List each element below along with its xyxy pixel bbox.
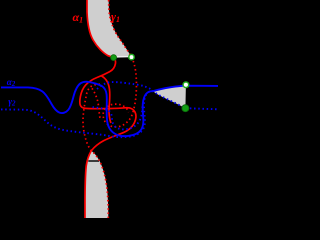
gamma2 blue dotted: inner hook along horizontal then inner U — [93, 105, 143, 130]
white dot C (wedge top right) — [183, 82, 189, 88]
finger wedge right (gray) — [153, 85, 186, 108]
white dot B (top band tip right) — [129, 54, 134, 59]
gamma1 red dotted: band inner edge — [109, 0, 132, 57]
gamma2 blue dotted: horizontal pass through tangle to wedge tip — [97, 82, 153, 91]
green dot A (top band tip left) — [111, 55, 117, 61]
gamma1 red dotted: descent from white dot and big oval loop — [103, 57, 136, 127]
green dot D (wedge bottom right) — [182, 105, 189, 112]
gamma1 red dotted: left arc, long descent to bottom band tip, band right edge — [83, 84, 108, 218]
dark tip line on bottom band — [88, 160, 99, 162]
finger band bottom (gray) — [85, 151, 108, 218]
alpha2 blue solid: left line, S-dip, arch, descent, U, rise, wedge top edge, right line — [1, 82, 218, 136]
white tip line of top band — [114, 56, 131, 58]
gamma1 red dotted: short inner descent — [92, 88, 100, 118]
gamma2 blue dotted: left line, S, bottom pass, along U, rise, wedge tip, bottom edge, right line — [1, 91, 218, 137]
alpha1 red solid: fork descending right of blue descent — [102, 76, 111, 123]
finger band top (gray) — [87, 0, 132, 58]
alpha1 red solid: band outer edge — [87, 0, 114, 58]
alpha1 red solid: sweep from green dot, corner, horizontal, curl, bottom sweep, to band tip, band left edge — [80, 58, 136, 218]
